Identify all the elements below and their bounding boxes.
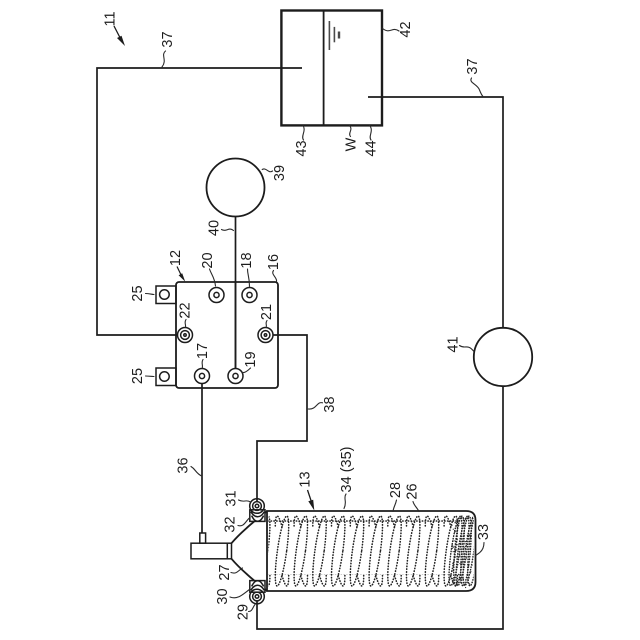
svg-text:31: 31 (224, 490, 240, 506)
svg-text:39: 39 (272, 165, 288, 181)
svg-text:37: 37 (465, 58, 481, 74)
svg-text:25: 25 (130, 368, 146, 384)
svg-text:32: 32 (223, 516, 239, 532)
svg-text:18: 18 (239, 252, 255, 268)
svg-text:37: 37 (160, 31, 176, 47)
svg-text:11: 11 (103, 11, 119, 26)
svg-text:43: 43 (294, 140, 310, 156)
svg-text:17: 17 (195, 343, 211, 359)
svg-text:22: 22 (178, 302, 194, 318)
svg-text:W: W (344, 137, 360, 151)
svg-text:21: 21 (259, 304, 275, 320)
svg-text:28: 28 (388, 482, 404, 498)
svg-text:20: 20 (200, 252, 216, 268)
svg-text:34 (35): 34 (35) (339, 447, 355, 493)
svg-text:36: 36 (176, 457, 192, 473)
svg-text:25: 25 (130, 285, 146, 301)
svg-text:44: 44 (364, 140, 380, 156)
svg-text:40: 40 (206, 220, 222, 236)
svg-text:30: 30 (215, 588, 231, 604)
svg-text:29: 29 (236, 604, 252, 620)
svg-text:19: 19 (243, 351, 259, 367)
svg-text:12: 12 (168, 250, 184, 266)
svg-text:13: 13 (298, 471, 314, 487)
svg-text:41: 41 (446, 336, 462, 352)
svg-text:26: 26 (405, 483, 421, 499)
svg-text:27: 27 (217, 564, 233, 580)
svg-text:16: 16 (266, 254, 282, 270)
svg-text:33: 33 (476, 524, 492, 540)
svg-text:42: 42 (398, 21, 414, 37)
svg-text:38: 38 (322, 396, 338, 412)
